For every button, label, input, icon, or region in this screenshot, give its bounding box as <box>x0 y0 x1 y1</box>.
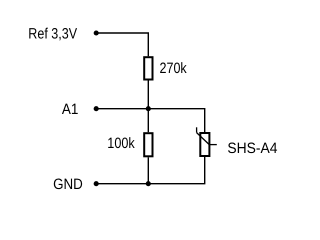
svg-text:GND: GND <box>53 176 83 193</box>
svg-text:Ref 3,3V: Ref 3,3V <box>28 26 77 43</box>
svg-text:SHS-A4: SHS-A4 <box>227 140 277 157</box>
svg-text:100k: 100k <box>107 135 135 152</box>
svg-text:A1: A1 <box>62 101 79 118</box>
svg-text:270k: 270k <box>160 60 188 77</box>
